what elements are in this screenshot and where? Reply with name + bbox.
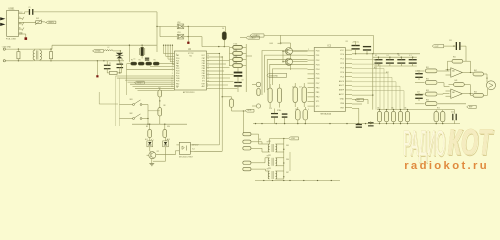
svg-text:FU1: FU1 xyxy=(36,18,39,20)
svg-text:PC5: PC5 xyxy=(340,76,344,78)
svg-text:C26: C26 xyxy=(417,71,420,73)
svg-text:X3: X3 xyxy=(259,139,261,141)
svg-text:C1: C1 xyxy=(28,7,30,9)
svg-text:XT1: XT1 xyxy=(316,101,319,103)
svg-text:КОТ: КОТ xyxy=(448,122,494,163)
svg-text:XTAL: XTAL xyxy=(277,109,281,112)
svg-text:L3: L3 xyxy=(134,58,136,60)
svg-text:PD6: PD6 xyxy=(316,78,320,80)
svg-text:R7: R7 xyxy=(159,88,161,90)
svg-text:C16: C16 xyxy=(292,87,295,89)
svg-text:USB5V: USB5V xyxy=(48,22,55,24)
svg-text:L2: L2 xyxy=(108,47,110,49)
svg-text:R 10k: R 10k xyxy=(234,56,238,58)
svg-text:R34: R34 xyxy=(426,100,429,102)
svg-text:PB2: PB2 xyxy=(316,97,320,99)
svg-text:R1: R1 xyxy=(146,59,148,61)
svg-text:ADC7: ADC7 xyxy=(339,84,344,87)
svg-text:VCC: VCC xyxy=(340,50,345,52)
svg-text:AREF: AREF xyxy=(339,89,345,92)
svg-text:R8: R8 xyxy=(164,105,166,107)
svg-text:C4: C4 xyxy=(222,28,224,30)
svg-text:PA0: PA0 xyxy=(176,64,179,67)
svg-text:R31: R31 xyxy=(426,67,429,69)
svg-text:GND: GND xyxy=(340,99,345,101)
svg-text:C22: C22 xyxy=(451,111,454,113)
svg-text:C51: C51 xyxy=(449,40,452,42)
svg-text:MEGA48-AI: MEGA48-AI xyxy=(321,113,332,116)
svg-text:PC3: PC3 xyxy=(340,68,344,70)
svg-text:РАДИО: РАДИО xyxy=(403,124,445,163)
svg-text:R44: R44 xyxy=(474,91,477,93)
svg-text:19: 19 xyxy=(207,58,209,60)
svg-text:PD5: PD5 xyxy=(316,74,320,76)
svg-text:+5: +5 xyxy=(121,59,123,61)
svg-text:R9: R9 xyxy=(146,126,148,128)
svg-text:0.1: 0.1 xyxy=(375,55,377,57)
svg-text:R22: R22 xyxy=(386,72,389,74)
svg-text:10k: 10k xyxy=(404,107,407,109)
svg-text:R41: R41 xyxy=(453,57,456,59)
svg-text:220VAC: 220VAC xyxy=(95,49,102,52)
svg-text:VD5: VD5 xyxy=(286,145,289,147)
svg-text:AVCC: AVCC xyxy=(339,93,345,96)
svg-text:SB1: SB1 xyxy=(130,99,133,101)
svg-text:C9: C9 xyxy=(242,80,244,82)
svg-text:IC1: IC1 xyxy=(346,41,349,43)
svg-text:VD2: VD2 xyxy=(177,22,180,24)
svg-text:15: 15 xyxy=(207,68,209,70)
svg-text:VT1: VT1 xyxy=(157,151,160,153)
svg-text:USB1: USB1 xyxy=(8,8,15,10)
svg-text:R1: R1 xyxy=(154,59,156,61)
svg-text:C14: C14 xyxy=(269,108,272,110)
svg-text:VD3: VD3 xyxy=(177,32,180,34)
svg-text:ADC6: ADC6 xyxy=(339,80,344,83)
svg-text:10k: 10k xyxy=(391,107,394,109)
svg-text:IC2: IC2 xyxy=(192,148,195,150)
svg-text:TP2: TP2 xyxy=(268,155,271,157)
svg-text:PD1: PD1 xyxy=(316,55,320,57)
svg-text:PD3: PD3 xyxy=(316,64,320,66)
svg-text:USBGND: USBGND xyxy=(269,75,278,77)
svg-text:R 10k: R 10k xyxy=(234,62,238,64)
svg-text:radiokot.ru: radiokot.ru xyxy=(404,160,489,172)
svg-text:16: 16 xyxy=(207,65,209,67)
svg-text:R12: R12 xyxy=(437,108,440,110)
svg-text:12: 12 xyxy=(207,76,209,78)
svg-text:R 10k: R 10k xyxy=(234,50,238,52)
svg-text:R21: R21 xyxy=(374,68,377,70)
svg-text:SB2: SB2 xyxy=(130,113,133,115)
svg-text:PC2: PC2 xyxy=(340,63,344,65)
svg-text:22p: 22p xyxy=(295,109,298,111)
svg-text:R1: R1 xyxy=(139,59,141,61)
svg-text:PB6: PB6 xyxy=(340,103,344,105)
svg-text:R 10k: R 10k xyxy=(234,44,238,46)
svg-text:C2: C2 xyxy=(109,63,111,65)
svg-text:0.1: 0.1 xyxy=(398,55,400,57)
svg-text:D+: D+ xyxy=(19,22,21,24)
svg-text:TP3: TP3 xyxy=(268,168,271,170)
svg-text:PB0: PB0 xyxy=(316,87,320,89)
svg-text:+USB5V: +USB5V xyxy=(252,35,260,37)
svg-text:R32: R32 xyxy=(426,79,429,81)
svg-text:HL2: HL2 xyxy=(167,139,170,141)
svg-text:C3: C3 xyxy=(120,63,122,65)
svg-text:R43: R43 xyxy=(455,80,458,82)
svg-text:10k: 10k xyxy=(377,107,380,109)
svg-text:PC0: PC0 xyxy=(340,54,344,56)
svg-text:HL1: HL1 xyxy=(145,139,148,141)
svg-text:ATTINY2313: ATTINY2313 xyxy=(183,91,195,94)
svg-text:PC1: PC1 xyxy=(340,59,344,61)
svg-text:R33: R33 xyxy=(426,90,429,92)
svg-text:INT: INT xyxy=(357,99,360,101)
svg-text:X2: X2 xyxy=(486,78,488,80)
svg-text:PD7: PD7 xyxy=(316,83,320,85)
svg-text:C27: C27 xyxy=(417,92,420,94)
svg-text:S7 TNY: S7 TNY xyxy=(188,53,194,55)
svg-text:0.1: 0.1 xyxy=(387,55,389,57)
svg-text:PB1: PB1 xyxy=(316,92,320,94)
svg-text:PB7: PB7 xyxy=(340,107,344,109)
svg-text:RESET: RESET xyxy=(137,82,144,84)
svg-text:PC4: PC4 xyxy=(340,72,344,74)
svg-text:R42: R42 xyxy=(474,70,477,72)
svg-text:10: 10 xyxy=(177,87,179,89)
svg-text:XT2: XT2 xyxy=(316,106,319,108)
svg-text:PD2: PD2 xyxy=(316,60,320,62)
svg-text:OUT1: OUT1 xyxy=(247,110,251,112)
svg-text:VD7: VD7 xyxy=(286,172,289,174)
svg-text:PD0: PD0 xyxy=(316,51,320,53)
svg-text:C17: C17 xyxy=(299,87,302,89)
svg-text:+USB5V: +USB5V xyxy=(248,37,256,39)
svg-text:PA1: PA1 xyxy=(176,62,179,65)
svg-text:PD4: PD4 xyxy=(316,69,320,71)
svg-text:~230 GND: ~230 GND xyxy=(2,47,12,49)
svg-text:R10: R10 xyxy=(167,126,170,128)
svg-text:VD6: VD6 xyxy=(286,159,289,161)
svg-text:PCB_USB: PCB_USB xyxy=(6,38,16,40)
svg-text:0.1: 0.1 xyxy=(409,55,411,57)
svg-text:MOC3052 LTV817: MOC3052 LTV817 xyxy=(179,157,193,159)
